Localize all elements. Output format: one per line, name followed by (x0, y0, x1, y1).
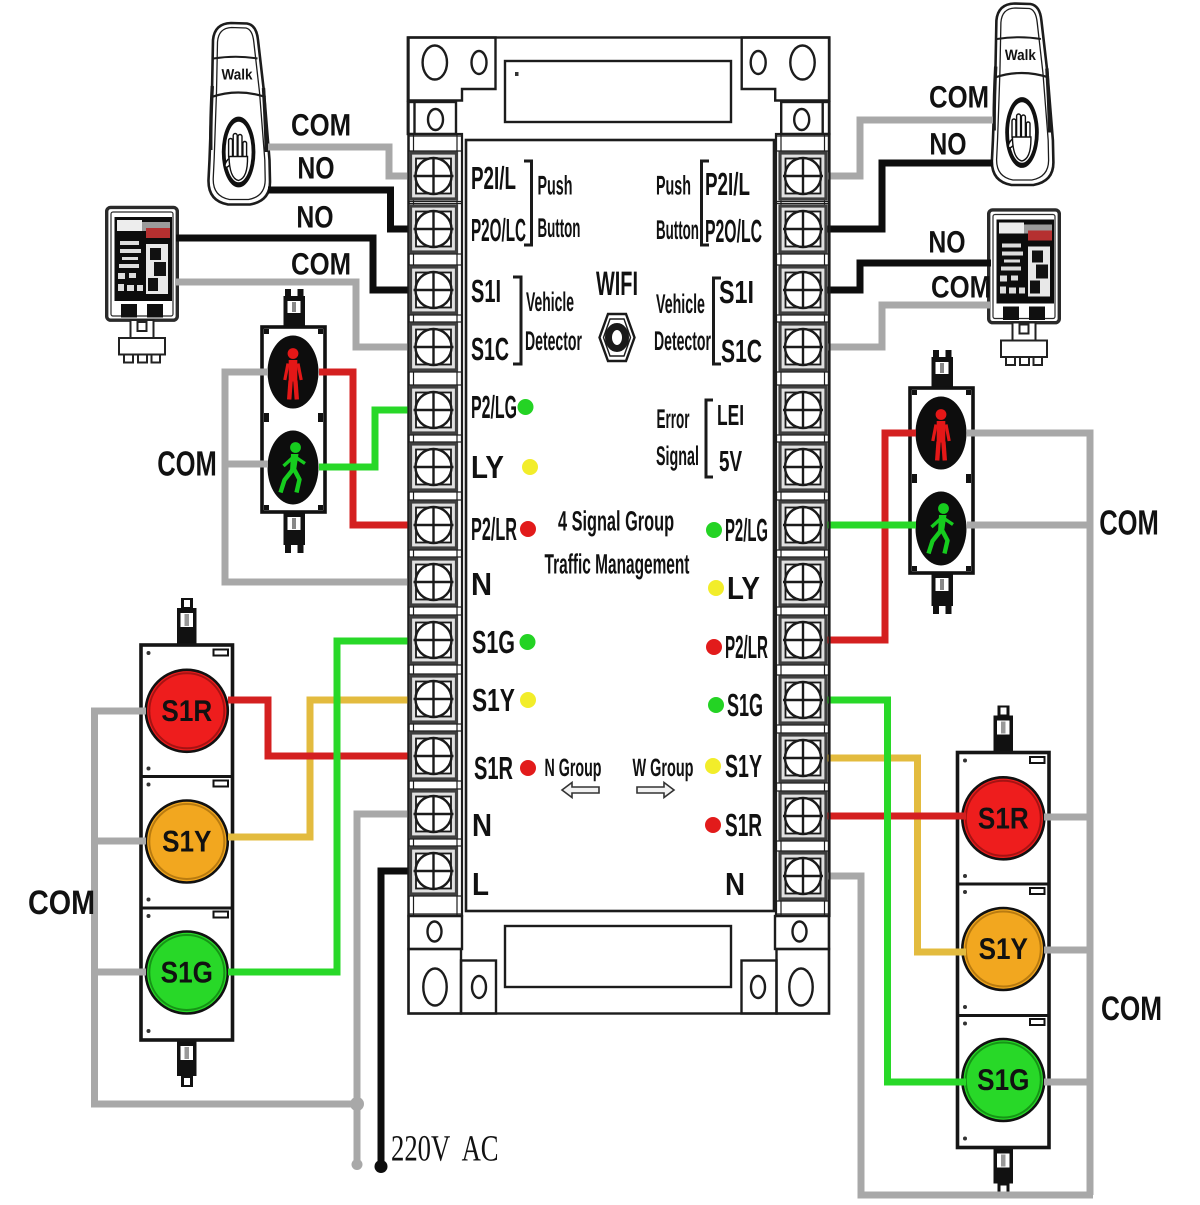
TB1 screw 10 S1Y (411, 676, 457, 722)
bracket error-signal (706, 400, 713, 477)
TB1 screw 4 S1C (411, 324, 457, 370)
wire COM stub left light green (95, 969, 147, 976)
TB1 screw 7 P2/LR (411, 502, 457, 548)
svg-text:LY: LY (471, 449, 504, 485)
top-left upper hole box (408, 102, 456, 134)
bottom-left big mounting hole (423, 969, 446, 1006)
bottom-left second hole (472, 976, 486, 998)
amber lens S1Y (146, 801, 228, 883)
wire COM stub right light amber (1044, 947, 1090, 954)
strip segment divider lines (409, 136, 830, 914)
junction dot COM end (352, 1159, 363, 1170)
push button PB1 (left Walk button) (208, 23, 270, 205)
bottom-left small hole (428, 922, 442, 942)
svg-text:NO: NO (296, 200, 333, 235)
traffic light TL1 (left, S1R/S1Y/S1G) (141, 598, 233, 1087)
svg-text:P2/LG: P2/LG (725, 512, 768, 548)
wire NO left walk button to P2O/LC (268, 190, 436, 229)
svg-text:P2I/L: P2I/L (705, 166, 750, 202)
svg-text:L: L (472, 866, 489, 902)
TB2 screw 2 P2O/LC (780, 206, 826, 252)
pedestrian signal PS2 (right) (910, 350, 973, 614)
TB2 screw 5 LEI (780, 387, 826, 433)
svg-text:P2/LR: P2/LR (471, 511, 517, 547)
svg-text:S1I: S1I (471, 273, 501, 309)
wire COM stub left light amber (95, 838, 147, 845)
wire L 220V AC feed (381, 871, 436, 1166)
svg-text:Detector: Detector (525, 326, 582, 356)
wire NO right walk button (803, 163, 993, 229)
bottom-left mounting tab (409, 949, 462, 1014)
svg-text:S1Y: S1Y (162, 826, 211, 859)
svg-text:S1G: S1G (472, 624, 515, 660)
vehicle detector D2 (right) (989, 210, 1060, 365)
svg-text:COM: COM (157, 445, 217, 484)
wire red right ped P2LR (803, 433, 916, 640)
svg-text:COM: COM (931, 270, 991, 305)
svg-text:Error: Error (657, 404, 690, 434)
TB1 screw 1 P2I/L (411, 153, 457, 199)
LED S1G right green (708, 697, 724, 713)
top-right small hole (751, 51, 766, 74)
svg-text:COM: COM (291, 247, 351, 282)
bottom-right big mounting hole (789, 969, 812, 1006)
LED S1R right red (705, 817, 721, 833)
green walking man lens (268, 431, 319, 505)
wire COM right ped red stub (967, 430, 1090, 437)
TB1 screw 13 L (411, 848, 457, 894)
svg-text:COM: COM (1099, 504, 1159, 543)
LED P2/LR right red (706, 639, 722, 655)
LED LY right yellow (708, 580, 724, 596)
LED P2/LG green (518, 399, 534, 415)
svg-text:Push: Push (656, 171, 691, 201)
svg-text:Walk: Walk (221, 67, 253, 84)
TB2 screw 1 P2I/L (780, 153, 826, 199)
wire COM right N terminal to bus (803, 876, 1093, 1195)
wire green right ped P2LG (803, 522, 916, 529)
vehicle detector D1 (left) (107, 207, 178, 362)
wifi antenna nut icon (600, 314, 635, 361)
svg-text:S1R: S1R (474, 750, 513, 786)
svg-text:S1G: S1G (727, 687, 763, 723)
wire red left ped P2/LR (319, 372, 436, 525)
TB1 screw 11 S1R (411, 733, 457, 779)
TB2 screw 8 LY (780, 559, 826, 605)
TB2 screw 13 N (780, 853, 826, 899)
svg-text:COM: COM (929, 80, 989, 115)
svg-text:COM: COM (1101, 990, 1162, 1028)
svg-text:WIFI: WIFI (596, 265, 638, 303)
svg-text:5V: 5V (719, 446, 742, 478)
svg-text:Button: Button (656, 215, 699, 245)
junction dot COM tee (350, 1097, 364, 1111)
wire COM stub right light red (1044, 814, 1090, 821)
svg-text:N: N (472, 807, 492, 843)
bottom-right second hole (751, 976, 765, 998)
bottom-right small-hole box (775, 916, 829, 949)
svg-text:Push: Push (538, 171, 573, 201)
svg-text:Detector: Detector (654, 326, 711, 356)
svg-text:LEI: LEI (717, 400, 744, 432)
bracket push-button right (702, 161, 710, 245)
svg-text:S1Y: S1Y (472, 682, 515, 718)
top-right mounting tab (742, 38, 830, 101)
svg-text:S1Y: S1Y (725, 748, 762, 784)
svg-text:S1G: S1G (161, 957, 213, 990)
bottom-right mounting tab (777, 949, 830, 1014)
svg-text:COM: COM (28, 884, 95, 922)
svg-text:220V AC: 220V AC (391, 1129, 499, 1170)
wire COM left pedestrian signal bus (225, 372, 436, 582)
bracket push-button left (524, 161, 532, 245)
terminal block TB1 (left strip) (409, 134, 463, 916)
wire COM left walk button to P2I/L (268, 147, 436, 176)
traffic light TL2 (right, S1R/S1Y/S1G) (958, 706, 1050, 1195)
svg-text:P2O/LC: P2O/LC (705, 213, 762, 249)
TB1 screw 9 S1G (411, 617, 457, 663)
red lens S1R (146, 670, 228, 752)
svg-text:NO: NO (928, 225, 965, 260)
svg-text:NO: NO (297, 151, 334, 186)
top-left big mounting hole (423, 46, 447, 80)
bottom-right small hole (793, 922, 807, 942)
N-group left arrow (562, 783, 599, 798)
wire yellow right light S1Y (803, 758, 966, 952)
wire COM stub left pedestrian green (222, 461, 268, 468)
wire COM right ped green stub (967, 522, 1090, 529)
svg-text:P2/LR: P2/LR (725, 629, 768, 665)
W-group right arrow (637, 783, 674, 798)
top-right big mounting hole (790, 46, 814, 80)
svg-text:N Group: N Group (545, 754, 602, 782)
wire COM right walk button (803, 120, 993, 176)
svg-text:Traffic Management: Traffic Management (545, 549, 690, 580)
LED S1Y yellow (520, 692, 536, 708)
LED LY yellow (522, 459, 538, 475)
wire COM stub right light green (1044, 1079, 1090, 1086)
svg-text:N: N (725, 866, 745, 902)
svg-text:N: N (471, 566, 492, 602)
svg-text:P2O/LC: P2O/LC (471, 212, 526, 248)
LED S1G green (520, 634, 536, 650)
svg-text:P2I/L: P2I/L (471, 160, 516, 196)
wire green left ped P2/LG (319, 410, 436, 467)
wire COM left detector to S1C (176, 282, 436, 347)
TB1 screw 5 P2/LG (411, 387, 457, 433)
wire green right light S1G (803, 700, 966, 1082)
LED S1R red (520, 760, 536, 776)
svg-text:NO: NO (929, 127, 966, 162)
svg-text:S1C: S1C (471, 331, 509, 367)
LED S1Y right yellow (705, 758, 721, 774)
svg-text:W Group: W Group (633, 754, 694, 782)
top-left small hole (472, 51, 487, 74)
svg-text:COM: COM (291, 108, 351, 143)
svg-text:Signal: Signal (656, 441, 699, 471)
bottom-left second tab (461, 961, 496, 1014)
wire NO left detector to S1I (176, 238, 436, 290)
top-left mounting tab (408, 38, 496, 101)
bottom-right second tab (742, 961, 777, 1014)
svg-text:Vehicle: Vehicle (656, 289, 705, 319)
TB2 screw 11 S1Y (780, 735, 826, 781)
wire COM right detector (803, 305, 991, 347)
top label plate (505, 61, 731, 122)
terminal block TB2 (right strip) (776, 134, 830, 916)
wire COM right vertical bus (1087, 430, 1094, 1196)
wire NO right detector (803, 263, 991, 290)
TB2 screw 9 P2LR (780, 617, 826, 663)
TB1 screw 6 LY (411, 444, 457, 490)
top-left upper hole (428, 109, 443, 130)
bracket vehicle-detector right (714, 278, 722, 364)
wire COM left traffic light bus (95, 711, 358, 1104)
svg-text:S1R: S1R (725, 807, 762, 843)
svg-text:Button: Button (538, 213, 581, 243)
push button PB2 (right Walk button) (992, 4, 1054, 186)
svg-text:P2/LG: P2/LG (471, 389, 517, 425)
wire COM left light to N terminal (357, 814, 436, 1164)
TB1 screw 8 N (411, 559, 457, 605)
bracket vehicle-detector left (513, 277, 521, 364)
inner panel (466, 140, 774, 911)
TB1 screw 2 P2O/LC (411, 206, 457, 252)
green lens S1G (146, 932, 228, 1014)
svg-text:LY: LY (727, 570, 760, 606)
TB2 screw 3 S1I (780, 267, 826, 313)
svg-text:S1R: S1R (161, 695, 212, 728)
pedestrian signal PS1 (left) (262, 289, 325, 553)
LED P2/LG right green (706, 522, 722, 538)
junction dot 220V end (375, 1160, 388, 1173)
bottom-left small-hole box (409, 916, 463, 949)
controller U1 outer case (409, 38, 830, 1014)
top-right upper hole box (781, 102, 829, 134)
bottom label plate (505, 926, 731, 987)
TB2 screw 6 5V (780, 444, 826, 490)
svg-text:Vehicle: Vehicle (526, 287, 574, 317)
TB1 screw 3 S1I (411, 267, 457, 313)
LED P2/LR red (520, 521, 536, 537)
wire red right light S1R (803, 813, 966, 820)
svg-text:4 Signal Group: 4 Signal Group (558, 506, 674, 537)
red standing man lens (268, 336, 319, 409)
wire green left light S1G (228, 641, 436, 972)
TB2 screw 12 S1R (780, 793, 826, 839)
top-right upper hole (794, 109, 809, 130)
label plate mark (515, 72, 519, 76)
TB2 screw 7 P2LG (780, 502, 826, 548)
wire yellow left light S1Y (228, 700, 436, 837)
svg-text:S1C: S1C (721, 333, 762, 369)
TB2 screw 10 S1G (780, 677, 826, 723)
TB1 screw 12 N (411, 791, 457, 837)
TB2 screw 4 S1C (780, 324, 826, 370)
svg-text:S1I: S1I (719, 274, 754, 310)
wire red left light S1R (228, 700, 436, 756)
